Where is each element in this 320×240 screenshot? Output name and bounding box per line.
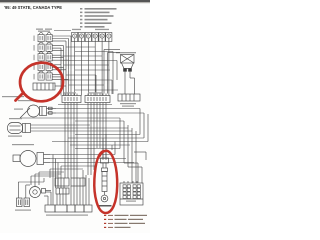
fuse E <box>99 33 105 42</box>
fuse B <box>78 33 84 42</box>
relay row 4 label <box>34 64 35 70</box>
top scan edge band <box>0 0 150 2</box>
relay row 5 label <box>34 74 35 80</box>
fuse C <box>85 33 91 42</box>
left vertical bus between relays and fuse area <box>54 31 71 96</box>
fuse letters <box>74 34 110 38</box>
paper background <box>0 0 150 233</box>
headlight label <box>12 144 34 145</box>
bottom middle connector block 1 <box>55 178 69 186</box>
relay row 2 label <box>34 45 35 51</box>
svg-text:C: C <box>87 34 89 38</box>
bottom-left plug B <box>24 198 30 207</box>
ignition switch drop wires <box>104 50 135 95</box>
horn circle bottom left <box>30 180 52 198</box>
connector caption <box>120 103 136 107</box>
plug caption <box>15 210 31 211</box>
red annotation circle 2 (side stand switch) <box>94 151 117 213</box>
left label near red circle tail <box>2 96 24 97</box>
bottom-left plug A <box>17 198 23 207</box>
fuse drop wires <box>75 42 109 96</box>
right vertical bus <box>112 109 148 184</box>
turn signal bulb label <box>9 118 22 119</box>
lower small connector block 3 <box>56 188 69 194</box>
diode block (wide flat component in red circle) <box>33 83 55 90</box>
headlight <box>13 151 50 167</box>
mid connector strip 1 <box>62 94 81 103</box>
bottom wide connector row <box>45 205 92 212</box>
bottom caption <box>46 215 88 216</box>
relay row 3 label <box>34 55 35 61</box>
bottom right legend text <box>104 215 147 228</box>
svg-text:A: A <box>74 34 76 38</box>
ignition switch label <box>116 52 136 53</box>
relay unit 3 <box>38 52 52 61</box>
junction box bottom right <box>120 181 143 205</box>
svg-text:E: E <box>101 34 103 38</box>
bottom middle drops <box>44 170 89 205</box>
relay unit 5 <box>38 71 52 80</box>
relay column labels <box>36 29 52 32</box>
fuse A <box>72 33 78 42</box>
svg-text:'95: 49 STATE, CANADA TYPE: '95: 49 STATE, CANADA TYPE <box>4 5 63 11</box>
drop wires from mid connectors <box>65 103 106 179</box>
main harness connector right <box>118 94 140 101</box>
turn signal bulb (cylinder) <box>8 123 31 134</box>
ignition switch <box>121 55 135 72</box>
turn bulb lower label <box>8 136 22 137</box>
relay row 1 label <box>34 36 35 42</box>
relay unit 1 <box>38 33 52 42</box>
side stand switch chain (in red circle) <box>101 134 109 202</box>
junction box caption <box>126 201 136 202</box>
wire jogs between fuse drops <box>61 47 118 94</box>
left drop wires to bottom connectors <box>50 155 96 206</box>
side stand caption <box>98 205 112 207</box>
legend list top-right <box>80 8 117 28</box>
svg-text:B: B <box>81 34 83 38</box>
fuse F <box>106 33 112 42</box>
strip captions <box>64 92 76 93</box>
fuse box label <box>72 29 109 30</box>
bottom-left wires <box>18 172 64 198</box>
oil pressure switch <box>28 105 57 117</box>
fuse D <box>92 33 98 42</box>
relay unit 4 <box>38 61 52 70</box>
mid connector strip 2 <box>85 94 110 103</box>
red annotation circle 1 (relays) <box>16 61 65 103</box>
wire stubs from relay units to right bus <box>52 36 71 86</box>
oil switch left label <box>14 109 23 110</box>
svg-text:D: D <box>94 34 96 38</box>
oil pressure switch label <box>18 100 38 101</box>
bottom middle connector block 2 <box>71 178 85 186</box>
long horizontal wires mid band <box>20 105 148 163</box>
relay unit 2 <box>38 42 52 51</box>
merge wires above <box>20 108 30 118</box>
